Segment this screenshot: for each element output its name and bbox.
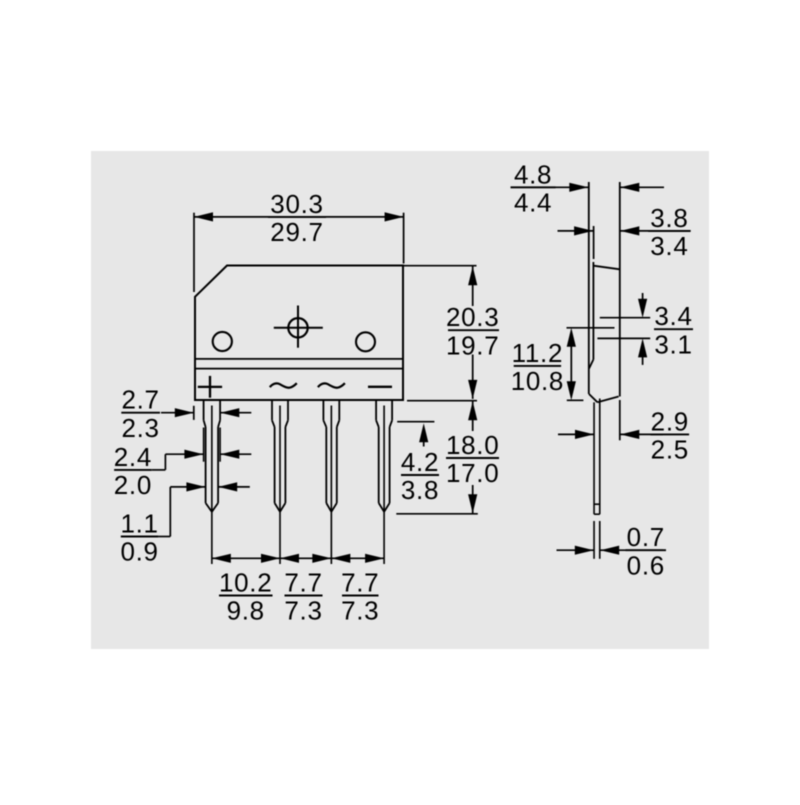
svg-text:3.4: 3.4 [654,301,692,331]
svg-text:0.9: 0.9 [120,537,158,567]
svg-text:2.0: 2.0 [114,470,152,500]
svg-text:20.3: 20.3 [446,302,499,332]
svg-text:10.2: 10.2 [219,568,272,598]
svg-text:7.7: 7.7 [284,568,322,598]
svg-text:17.0: 17.0 [446,458,499,488]
svg-text:29.7: 29.7 [270,217,323,247]
svg-text:19.7: 19.7 [446,330,499,360]
svg-text:1.1: 1.1 [120,509,158,539]
svg-text:3.8: 3.8 [401,475,439,505]
svg-text:7.3: 7.3 [341,596,379,626]
svg-text:2.3: 2.3 [121,413,159,443]
svg-text:3.8: 3.8 [650,203,688,233]
svg-text:0.6: 0.6 [627,550,665,580]
svg-text:18.0: 18.0 [446,430,499,460]
svg-text:2.4: 2.4 [114,442,152,472]
svg-text:7.3: 7.3 [284,596,322,626]
svg-text:4.8: 4.8 [514,159,552,189]
svg-text:2.7: 2.7 [121,385,159,415]
svg-text:30.3: 30.3 [270,189,323,219]
svg-text:4.4: 4.4 [514,188,552,218]
svg-text:2.5: 2.5 [651,435,689,465]
svg-text:4.2: 4.2 [401,447,439,477]
svg-text:11.2: 11.2 [512,338,563,368]
svg-text:7.7: 7.7 [341,568,379,598]
svg-text:0.7: 0.7 [627,522,665,552]
svg-text:3.1: 3.1 [654,329,692,359]
svg-text:9.8: 9.8 [227,596,265,626]
svg-text:2.9: 2.9 [651,406,689,436]
svg-text:10.8: 10.8 [511,366,564,396]
svg-text:3.4: 3.4 [650,231,688,261]
